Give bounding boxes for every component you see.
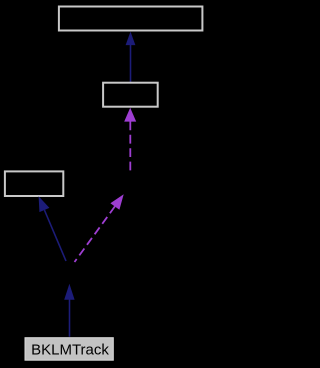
wire: inheritance edge middle box -> top box (solid midnightblue): [130, 45, 132, 83]
arrowhead of inheritance edge at top box: [126, 32, 136, 45]
node box: top class (label hidden on dark bg): [59, 7, 203, 31]
node box: middle class: [103, 83, 158, 107]
arrowhead of inheritance edge at left box: [39, 196, 50, 212]
wire: dashed usage edge below middle box: [129, 121, 131, 170]
arrowhead of diagonal dashed usage edge: [110, 194, 123, 209]
arrowhead of vertical edge from BKLMTrack: [64, 284, 74, 300]
node box: left class: [5, 171, 63, 196]
wire: diagonal inheritance edge junction -> left box: [44, 210, 66, 261]
svg-text:BKLMTrack: BKLMTrack: [31, 341, 109, 358]
arrowhead of dashed usage edge at middle box (darkorchid): [124, 108, 136, 122]
wire: vertical inheritance edge BKLMTrack -> junction: [69, 299, 71, 337]
node BKLMTrack (current class, grey filled): [25, 338, 113, 361]
wire: diagonal dashed usage edge junction -> upper right: [75, 206, 115, 262]
